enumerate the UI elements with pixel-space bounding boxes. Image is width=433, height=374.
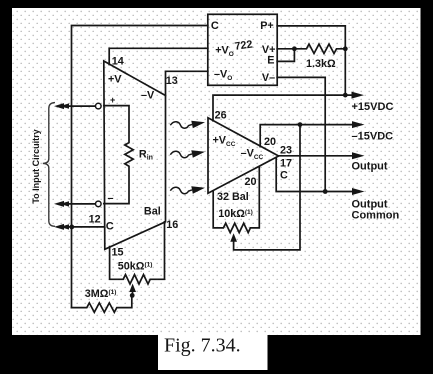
svg-text:23: 23 xyxy=(280,144,292,156)
junction node pin12 wire xyxy=(69,225,74,230)
wire pin13 to -Vo xyxy=(166,71,208,95)
arrowhead Output xyxy=(352,152,365,159)
svg-text:32 Bal: 32 Bal xyxy=(217,191,249,203)
black frame left xyxy=(0,0,12,374)
resistor 3MOhm zigzag xyxy=(72,296,132,313)
arrowhead 50k wiper up xyxy=(129,284,136,293)
svg-text:16: 16 xyxy=(166,219,178,231)
black frame top xyxy=(0,0,433,8)
optical coupling squiggle arrow 2 xyxy=(170,150,205,158)
svg-text:To Input Circuitry: To Input Circuitry xyxy=(31,129,41,203)
junction node V-/output common xyxy=(323,189,328,194)
wire balance wiper branch to 10k pot xyxy=(234,125,300,250)
junction node P+/+15VDC xyxy=(343,93,348,98)
arrowhead Output Common xyxy=(352,188,365,195)
junction node 3M/wiper xyxy=(130,293,135,298)
optical coupling squiggle arrow 3 xyxy=(170,186,205,194)
resistor 50kOhm with leads from pin15 to pin16 xyxy=(110,222,165,284)
svg-text:722: 722 xyxy=(234,38,254,52)
junction node 1.3k right xyxy=(343,46,348,51)
wire C guard: left long vertical from top wire down to 3M resistor xyxy=(72,26,208,308)
svg-text:–V: –V xyxy=(141,89,155,101)
wire minus input lead xyxy=(62,203,96,205)
junction node E/V+ xyxy=(292,46,297,51)
svg-text:–15VDC: –15VDC xyxy=(352,130,394,142)
svg-text:+15VDC: +15VDC xyxy=(352,101,394,113)
wire +15VDC rail to pin26 xyxy=(213,95,353,121)
wire 50k wiper arrow stem xyxy=(132,289,134,296)
svg-text:E: E xyxy=(267,55,274,67)
svg-text:20: 20 xyxy=(264,136,276,148)
wire pin12 C lead with junction xyxy=(62,226,104,228)
wire P+ to +15VDC rail xyxy=(277,26,345,95)
svg-text:C: C xyxy=(211,20,219,32)
black frame bottom band xyxy=(0,335,433,374)
node plus input terminal xyxy=(96,103,102,109)
svg-text:26: 26 xyxy=(215,109,227,121)
svg-text:17: 17 xyxy=(280,158,292,170)
wire inner loop with resistor Rin xyxy=(104,106,133,204)
svg-text:1.3kΩ: 1.3kΩ xyxy=(306,58,336,70)
arrowhead pin12 double xyxy=(54,224,69,230)
arrowhead -15VDC xyxy=(352,121,365,128)
black frame right xyxy=(421,0,433,374)
arrowhead minus input double xyxy=(54,201,69,207)
svg-text:Output: Output xyxy=(352,161,388,173)
svg-text:–: – xyxy=(108,193,114,205)
svg-text:Bal: Bal xyxy=(144,206,161,218)
svg-text:20: 20 xyxy=(245,176,257,188)
svg-text:+V: +V xyxy=(108,73,122,85)
arrowhead plus input double xyxy=(54,103,69,109)
svg-text:13: 13 xyxy=(166,75,178,87)
input bracket brace xyxy=(43,103,55,227)
svg-text:14: 14 xyxy=(112,55,124,67)
caption box xyxy=(158,333,268,370)
svg-text:P+: P+ xyxy=(260,20,274,32)
arrowhead 10k wiper up xyxy=(230,233,237,242)
wire V- down to output common xyxy=(277,77,325,191)
wire output from pin23 xyxy=(279,155,353,157)
arrowhead +15VDC xyxy=(352,92,365,99)
svg-text:C: C xyxy=(280,170,288,182)
svg-text:Common: Common xyxy=(352,210,400,222)
op-amp U1 722 power module box xyxy=(208,14,277,85)
junction node -15VDC branch xyxy=(298,122,303,127)
node minus input terminal xyxy=(96,201,102,207)
resistor 10kOhm with leads pin32 to pin20 xyxy=(213,168,259,233)
wire pin14 to +Vo xyxy=(109,48,208,64)
svg-text:V–: V– xyxy=(262,72,275,84)
svg-text:Fig. 7.34.: Fig. 7.34. xyxy=(164,335,241,357)
wire -15VDC rail to pin20 xyxy=(260,125,353,147)
isolation amplifier input block (trapezoid) xyxy=(104,61,166,249)
svg-text:15: 15 xyxy=(112,247,124,259)
svg-text:+: + xyxy=(110,95,115,105)
resistor 1.3kOhm with V+ leads xyxy=(277,44,345,53)
svg-text:12: 12 xyxy=(89,214,101,226)
svg-text:C: C xyxy=(106,221,114,233)
op-amp output stage triangle xyxy=(208,118,279,193)
optical coupling squiggle arrow 1 xyxy=(170,121,205,129)
wire plus input lead xyxy=(62,105,96,107)
wire pin17 C to output common xyxy=(276,158,353,192)
wire E loop to V+ xyxy=(277,49,294,62)
